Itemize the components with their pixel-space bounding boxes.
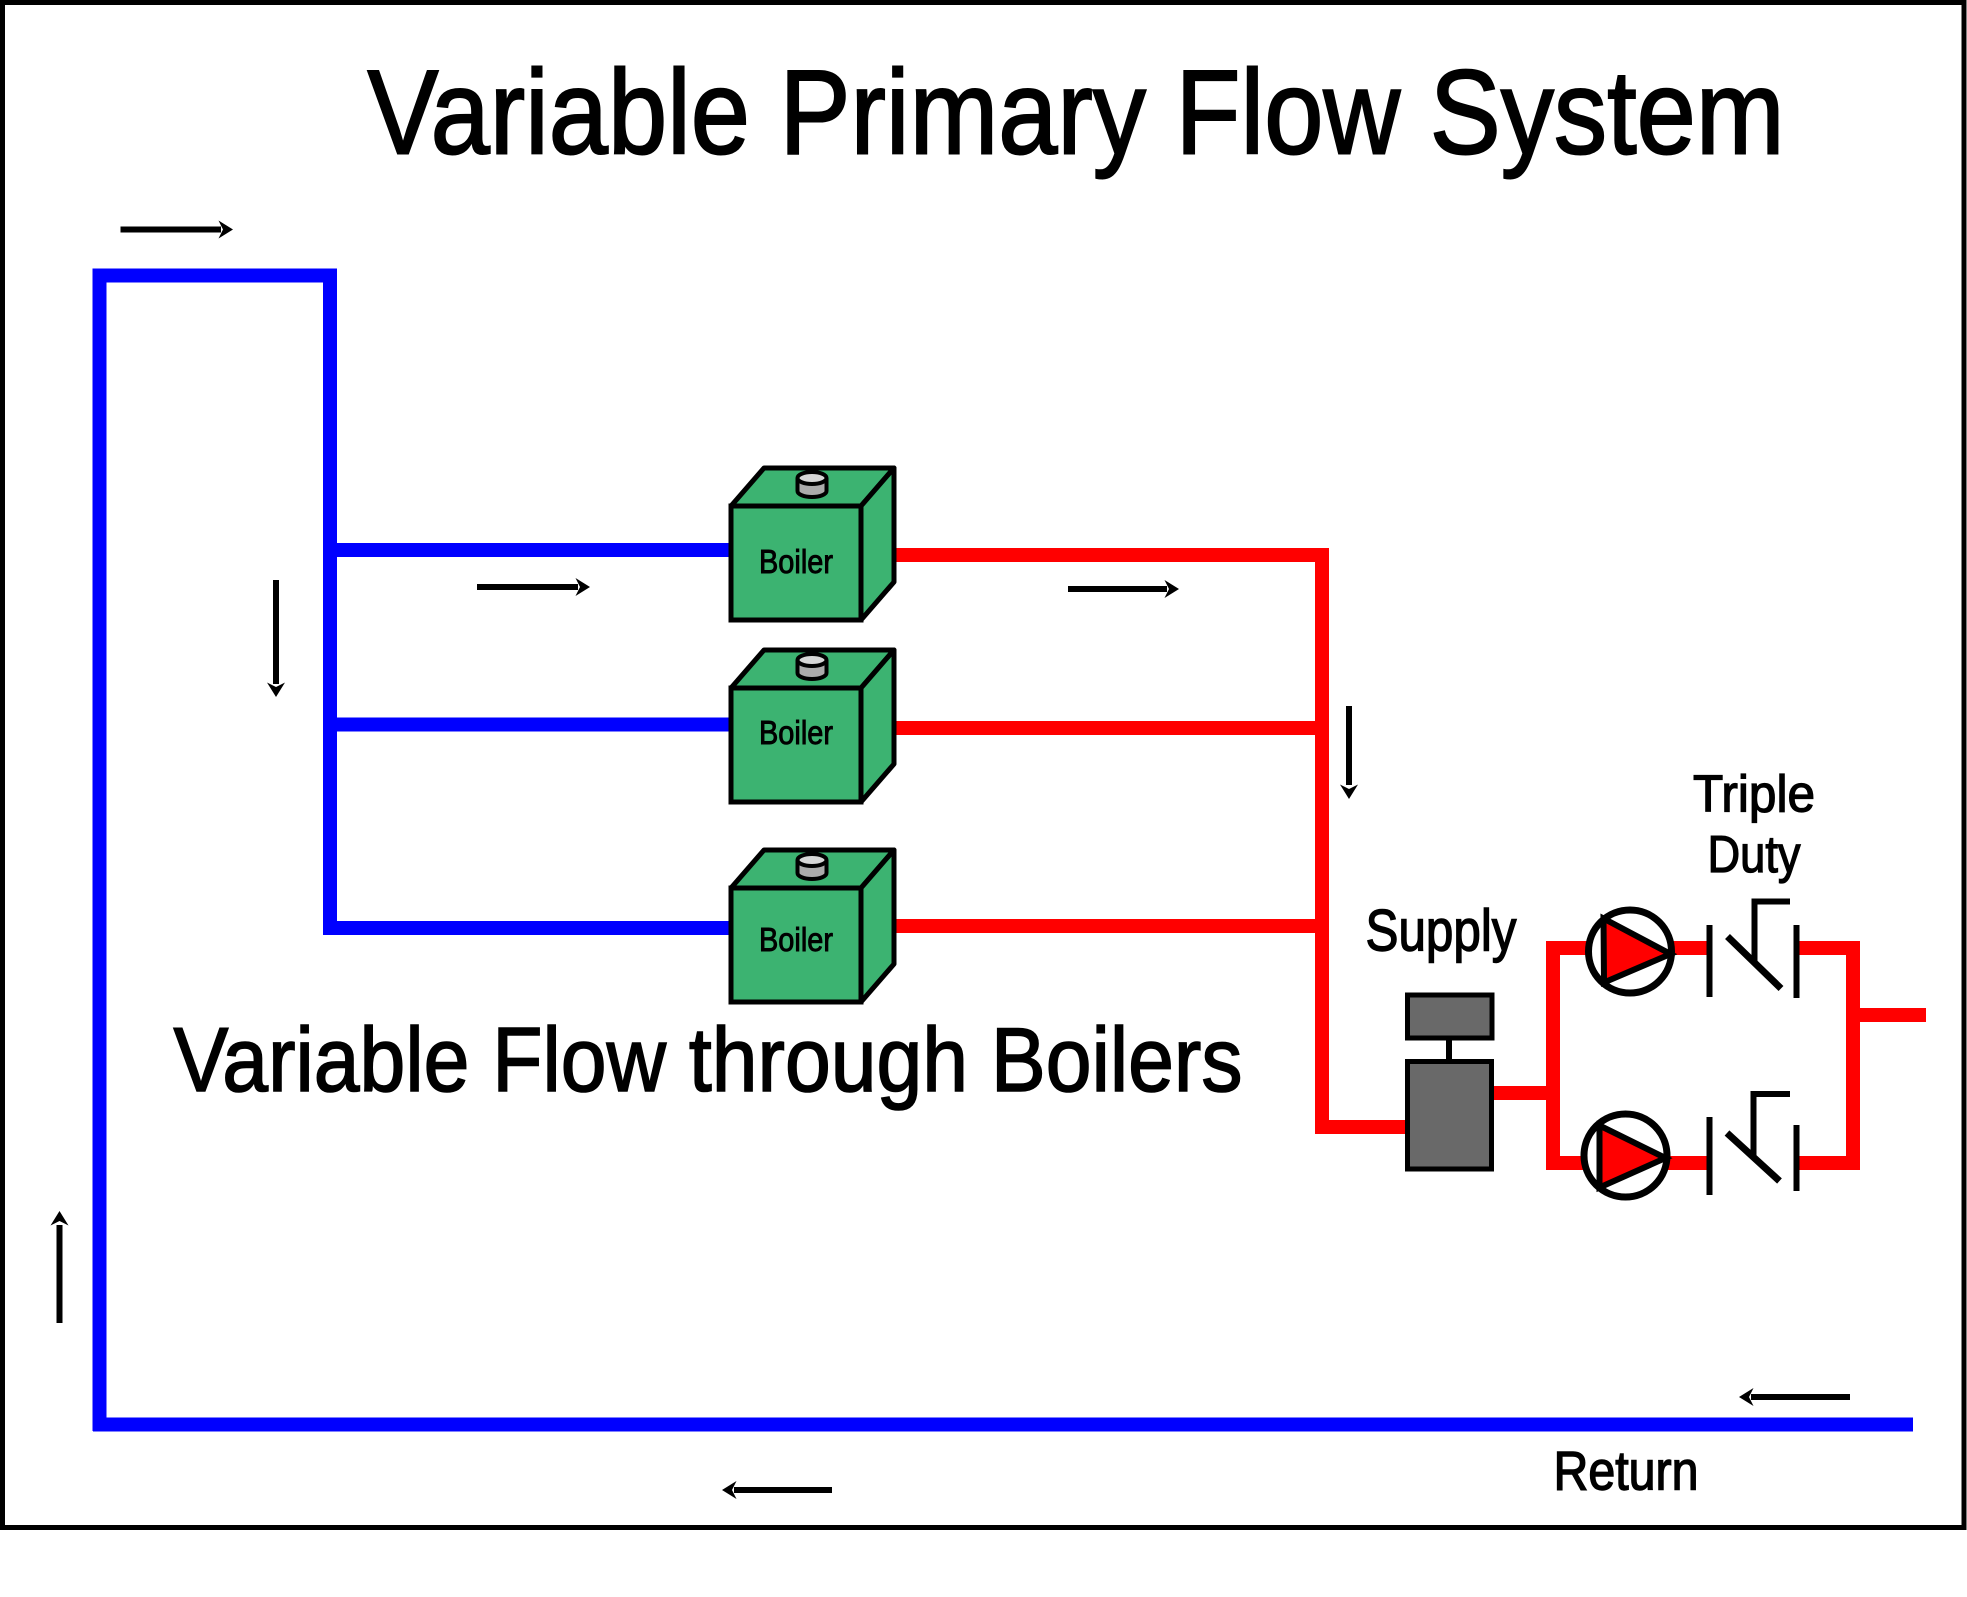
flow arrow A6 (up, bottom left) [51, 1211, 69, 1323]
svg-text:Variable Primary Flow System: Variable Primary Flow System [368, 46, 1785, 180]
wire: red top pump branch inlet [1546, 941, 1590, 955]
wire: red bottom pump branch to valve [1668, 1156, 1709, 1170]
flow arrow A7 (left, above return right) [1739, 1388, 1850, 1406]
svg-text:Supply: Supply [1366, 899, 1517, 964]
svg-text:Duty: Duty [1708, 826, 1801, 884]
wire: blue branch to Boiler 1 [323, 543, 731, 557]
wire: red top pump branch outlet [1797, 941, 1860, 955]
supply control valve (gray) [1408, 995, 1493, 1169]
pump P2 [1584, 1114, 1667, 1197]
wire: red bottom pump branch outlet [1797, 1156, 1860, 1170]
svg-text:Return: Return [1554, 1440, 1699, 1502]
wire: red supply riser and elbow to valve [1322, 548, 1407, 1127]
pump P1 [1589, 910, 1672, 993]
wire: red pump manifold left [1546, 941, 1560, 1170]
flow arrow A2 (down, inside blue loop) [267, 580, 285, 697]
wire: red top pump branch to valve [1672, 941, 1709, 955]
triple duty valve V2 (bottom) [1710, 1094, 1797, 1195]
wire: red outlet Boiler 3 [894, 919, 1329, 933]
wire: blue bottom return main [93, 1418, 1913, 1432]
flow arrow A1 (top left, right) [121, 221, 234, 239]
svg-text:Boiler: Boiler [759, 543, 833, 580]
wire: red pump manifold right [1846, 941, 1860, 1169]
svg-text:Boiler: Boiler [759, 921, 833, 958]
boiler B2 [731, 650, 894, 802]
flow arrow A4 (right, red outlet 1) [1068, 580, 1179, 598]
wire: blue branch to Boiler 3 [323, 921, 731, 935]
svg-text:Variable Flow through Boilers: Variable Flow through Boilers [174, 1010, 1243, 1111]
wire: red outlet Boiler 1 [894, 548, 1329, 562]
wire: red system supply stub [1853, 1008, 1926, 1022]
wire: red outlet Boiler 2 [894, 721, 1329, 735]
wire: blue supply loop (left vertical, top header, down-comb vertical) [100, 276, 331, 1432]
svg-text:Triple: Triple [1693, 766, 1815, 824]
wire: red valve outlet [1491, 1086, 1560, 1100]
triple duty valve V1 (top) [1710, 902, 1797, 999]
flow arrow A8 (left, bottom center) [722, 1481, 832, 1499]
flow arrow A5 (down, red riser) [1340, 706, 1358, 799]
boiler B3 [731, 850, 894, 1002]
svg-text:Boiler: Boiler [759, 714, 833, 751]
wire: red bottom pump branch inlet [1546, 1156, 1585, 1170]
boiler B1 [731, 468, 894, 620]
flow arrow A3 (right, blue branch 1) [477, 578, 590, 596]
wire: blue branch to Boiler 2 [323, 718, 731, 732]
